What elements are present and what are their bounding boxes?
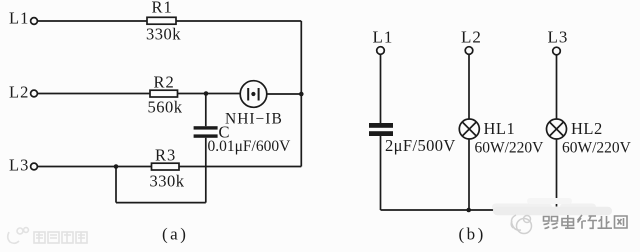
- wire bypass bottom: [116, 202, 206, 204]
- svg-text:L1: L1: [373, 28, 394, 47]
- wire right vertical bus: [300, 21, 302, 167]
- lamp HL2 circle: [547, 119, 567, 139]
- watermark logo+text (bottom left, very light): [8, 228, 87, 244]
- wire capacitor down to bypass: [205, 138, 207, 203]
- watermark logo (bottom right): [511, 215, 531, 234]
- wire junction down to capacitor C: [205, 94, 207, 127]
- wire bottom bus (b): [381, 209, 498, 211]
- neon indicator U1 NHI-1B circle: [240, 81, 267, 108]
- svg-text:60W/220V: 60W/220V: [475, 140, 545, 157]
- wire R2 to neon lamp: [178, 93, 241, 95]
- wire L2 (b) down to lamp HL1: [468, 54, 470, 119]
- node junction bottom bus: [466, 208, 471, 213]
- svg-text:L3: L3: [9, 156, 29, 175]
- capacitor C top plate: [194, 126, 218, 129]
- lamp HL2 cross stroke 2: [549, 122, 563, 136]
- svg-text:60W/220V: 60W/220V: [562, 140, 632, 157]
- wire R3 to right bus: [179, 166, 301, 168]
- svg-text:2μF/500V: 2μF/500V: [385, 136, 456, 155]
- lamp HL1 cross stroke 2: [462, 122, 476, 136]
- neon electrode left: [247, 88, 249, 101]
- svg-text:R3: R3: [155, 146, 176, 165]
- wire capacitor C2 to bottom bus: [380, 136, 382, 210]
- wire bypass left vertical: [115, 167, 117, 203]
- capacitor C2 top plate: [369, 123, 393, 128]
- svg-text:L2: L2: [461, 28, 482, 47]
- svg-text:R2: R2: [154, 73, 175, 92]
- svg-text:HL2: HL2: [571, 119, 603, 138]
- svg-text:(b): (b): [459, 225, 486, 244]
- wire L1 (b) down to capacitor: [380, 54, 382, 123]
- svg-text:0.01μF/600V: 0.01μF/600V: [208, 138, 292, 155]
- neon electrode right: [258, 88, 260, 101]
- wire L3 (b) down to lamp HL2: [556, 55, 558, 119]
- node junction L3: [114, 164, 119, 169]
- lamp HL1 circle: [459, 119, 479, 139]
- svg-text:NHI−IB: NHI−IB: [225, 111, 283, 128]
- wire L2 to R2: [38, 93, 150, 95]
- wire R1 to top-right corner: [176, 20, 301, 22]
- svg-text:L3: L3: [548, 28, 569, 47]
- svg-text:330k: 330k: [146, 25, 181, 44]
- resistor R2: [150, 90, 178, 97]
- resistor R3: [152, 163, 180, 170]
- node junction right bus: [299, 92, 304, 97]
- svg-text:330k: 330k: [150, 172, 185, 191]
- svg-text:R1: R1: [152, 0, 173, 17]
- wire HL2 to bottom bus: [556, 139, 558, 207]
- terminal L1: [31, 18, 38, 25]
- capacitor C2 bottom plate: [369, 131, 393, 136]
- capacitor C bottom plate: [194, 134, 218, 137]
- terminal L1 (b): [377, 47, 385, 55]
- wire L1 to R1: [38, 20, 147, 22]
- svg-text:HL1: HL1: [484, 119, 516, 138]
- wire L3 to R3: [38, 166, 152, 168]
- svg-text:(a): (a): [162, 225, 188, 244]
- watermark blur patch over bottom-right wires: [492, 198, 612, 215]
- wire neon to right bus: [267, 93, 302, 95]
- terminal L2 (b): [465, 47, 473, 55]
- watermark text 弱电行业网 (bottom right): [544, 215, 628, 229]
- wire HL1 to bottom bus: [468, 139, 470, 210]
- svg-text:560k: 560k: [148, 98, 183, 117]
- svg-text:L2: L2: [9, 83, 29, 102]
- neon dot: [251, 92, 255, 96]
- lamp HL1 cross stroke 1: [462, 122, 476, 136]
- svg-text:L1: L1: [9, 9, 29, 28]
- terminal L3: [31, 163, 38, 170]
- terminal L2: [31, 90, 38, 97]
- terminal L3 (b): [553, 47, 561, 55]
- node junction R2/C: [204, 91, 209, 96]
- lamp HL2 cross stroke 1: [549, 122, 563, 136]
- resistor R1: [147, 17, 176, 24]
